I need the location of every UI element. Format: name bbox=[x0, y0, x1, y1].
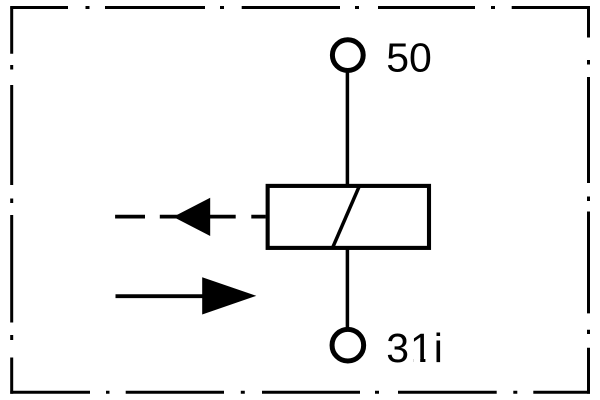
solid direction line bbox=[116, 294, 204, 298]
wire from relay box to terminal 31i bbox=[346, 248, 350, 329]
svg-text:50: 50 bbox=[386, 34, 432, 80]
terminal 50 circle bbox=[332, 40, 363, 71]
svg-text:31i: 31i bbox=[386, 325, 444, 371]
left-pointing arrowhead on dashed line bbox=[173, 198, 210, 236]
right-pointing arrowhead on solid line bbox=[202, 277, 256, 314]
dashed actuation line into box bbox=[115, 215, 266, 219]
wire from terminal 50 to relay box bbox=[346, 71, 350, 187]
terminal 31i circle bbox=[332, 329, 364, 361]
switch diagonal lever inside box bbox=[333, 186, 360, 248]
relay box K (switch element) bbox=[268, 186, 429, 248]
